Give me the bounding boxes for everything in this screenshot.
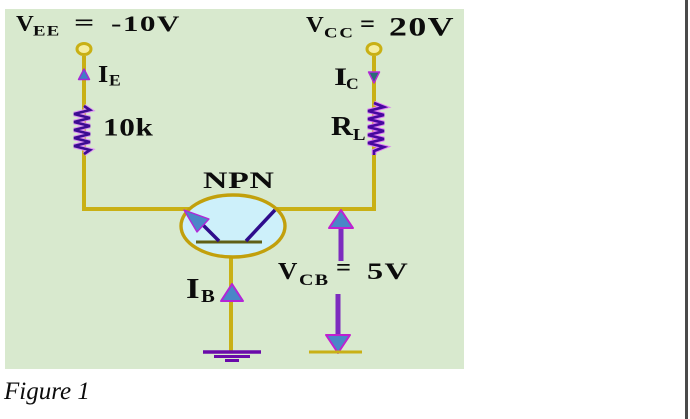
- svg-text:V: V: [306, 13, 324, 37]
- wire: base vertical down to ground: [229, 242, 233, 352]
- VCB bottom arrow: [326, 294, 350, 353]
- svg-text:EE: EE: [33, 22, 61, 39]
- svg-text:R: R: [331, 111, 353, 141]
- label IE: [98, 62, 121, 89]
- page right border line: [685, 0, 688, 419]
- svg-text:5V: 5V: [367, 259, 409, 284]
- arrow IE: [79, 69, 90, 80]
- svg-text:10k: 10k: [103, 114, 153, 141]
- label NPN: [203, 168, 275, 193]
- transistor Q1 NPN body: [181, 195, 285, 257]
- svg-text:B: B: [201, 287, 215, 306]
- transistor emitter arrow: [184, 210, 209, 232]
- terminal VCC: [367, 44, 381, 55]
- wire: short reference line under VCB bottom arrow: [309, 351, 362, 354]
- resistor RL: [368, 103, 384, 155]
- svg-text:V: V: [278, 257, 298, 284]
- svg-text:CC: CC: [324, 24, 355, 41]
- label RL: [331, 111, 366, 143]
- label VCC = 20V: [306, 12, 455, 42]
- svg-text:Figure 1: Figure 1: [3, 378, 90, 405]
- svg-text:CB: CB: [299, 271, 329, 289]
- resistor 10k: [74, 106, 90, 154]
- svg-text:E: E: [109, 71, 121, 89]
- svg-text:I: I: [186, 273, 200, 304]
- terminal VEE: [77, 44, 91, 55]
- wire: right vertical from VCC terminal down to rail: [372, 56, 376, 209]
- svg-text:=: =: [360, 12, 375, 38]
- caption Figure 1: [3, 378, 90, 405]
- green circuit panel: [5, 9, 464, 369]
- svg-text:=: =: [74, 10, 94, 35]
- label VEE = -10V: [16, 10, 181, 39]
- svg-text:=: =: [336, 255, 351, 281]
- wire: left horizontal rail to transistor emitter: [82, 207, 189, 211]
- transistor emitter lead: [196, 218, 219, 241]
- VCB top arrow: [329, 210, 353, 261]
- wire: right horizontal rail from transistor collector: [276, 207, 376, 211]
- arrow IC: [369, 72, 380, 83]
- wire: left vertical from VEE terminal down to rail: [82, 56, 86, 209]
- svg-text:V: V: [16, 12, 34, 36]
- label VCB = 5V: [278, 255, 409, 289]
- label IB: [186, 273, 215, 306]
- svg-text:L: L: [353, 125, 366, 144]
- label 10k: [103, 114, 153, 141]
- svg-text:-10V: -10V: [111, 11, 181, 35]
- transistor base bar: [196, 241, 262, 244]
- svg-text:NPN: NPN: [203, 168, 275, 193]
- svg-text:I: I: [98, 62, 108, 88]
- svg-text:20V: 20V: [389, 12, 455, 41]
- label IC: [334, 64, 359, 93]
- svg-text:C: C: [346, 75, 359, 93]
- transistor collector lead: [246, 210, 275, 241]
- arrow IB: [221, 284, 243, 301]
- ground: [203, 352, 261, 361]
